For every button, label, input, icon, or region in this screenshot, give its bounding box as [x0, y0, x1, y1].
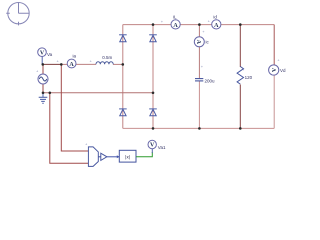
capacitor branch wire lower: [198, 81, 200, 128]
bridge left leg: [122, 25, 124, 129]
voltmeter Va: [38, 48, 53, 65]
node tap2: [49, 92, 52, 95]
node source bottom: [42, 92, 45, 95]
node top rail 3: [239, 23, 242, 26]
abs block |x|: [119, 150, 136, 162]
svg-text:120: 120: [245, 75, 253, 80]
node top rail 1: [152, 23, 155, 26]
gain triangle: [98, 153, 107, 160]
resistor branch wire lower: [239, 85, 241, 129]
diode D3: [119, 109, 127, 116]
svg-text:V: V: [272, 67, 278, 72]
svg-text:200u: 200u: [205, 79, 216, 84]
wire gain to abs box: [107, 156, 119, 158]
capacitor branch wire upper: [198, 25, 200, 79]
capacitor 200u: [195, 64, 215, 84]
wire inductor to node C: [113, 63, 123, 65]
svg-text:+: +: [85, 142, 88, 147]
node bottom rail 2: [198, 127, 201, 130]
voltmeter Va1: [148, 140, 166, 153]
tap wire from return down to sensor input 2: [50, 93, 89, 164]
top rail: [123, 24, 274, 26]
node bottom rail 3: [239, 127, 242, 130]
node top rail 2: [198, 23, 201, 26]
resistor 120: [237, 67, 253, 85]
ground: [39, 93, 48, 104]
svg-text:A: A: [173, 23, 178, 29]
svg-text:+: +: [90, 59, 93, 64]
green wire abs to Va1: [136, 152, 152, 157]
tap wire from node B down to sensor input 1: [61, 64, 88, 151]
svg-text:+: +: [161, 19, 164, 24]
svg-text:+: +: [208, 19, 211, 24]
inductor 0.5m: [90, 55, 114, 64]
svg-text:Vd: Vd: [280, 68, 286, 73]
svg-text:+: +: [57, 59, 60, 64]
svg-text:V: V: [150, 143, 155, 149]
node return-bridge: [152, 92, 155, 95]
ammeter iL: [161, 15, 180, 29]
svg-text:id: id: [213, 15, 217, 20]
voltmeter Vd (vertical): [269, 58, 286, 76]
bridge right leg: [152, 25, 154, 129]
svg-text:A: A: [195, 40, 201, 45]
ammeter id: [208, 15, 221, 29]
wire nodeA-nodeB: [43, 63, 62, 65]
svg-text:A: A: [214, 23, 219, 29]
svg-text:ia: ia: [73, 54, 77, 59]
source upper stem: [42, 64, 44, 74]
ammeter ic (vertical): [194, 29, 209, 47]
svg-text:+: +: [202, 29, 205, 34]
svg-text:A: A: [69, 62, 74, 68]
diode D1: [119, 35, 127, 42]
svg-text:|x|: |x|: [125, 155, 130, 160]
resistor branch wire upper: [239, 25, 241, 67]
svg-text:V: V: [40, 50, 45, 56]
node C: [122, 63, 125, 66]
svg-text:iL: iL: [173, 15, 177, 20]
right leg lower (Vd to rail): [273, 75, 275, 128]
bottom rail: [123, 127, 274, 129]
node A: [42, 63, 45, 66]
wire ammeter ia to inductor: [76, 63, 97, 65]
ammeter ia: [57, 54, 77, 68]
AC source Vs: [36, 69, 48, 85]
node B: [60, 63, 63, 66]
svg-text:+: +: [36, 69, 39, 74]
svg-text:+: +: [201, 64, 204, 69]
clock icon: [6, 3, 29, 26]
svg-text:+: +: [277, 58, 280, 63]
svg-text:0.5m: 0.5m: [102, 55, 112, 60]
diode D2: [149, 35, 157, 42]
right leg upper (to Vd): [273, 25, 275, 65]
source lower stem: [42, 84, 44, 93]
svg-text:+: +: [242, 67, 245, 72]
svg-text:ic: ic: [206, 40, 210, 45]
node bottom rail 1: [152, 127, 155, 130]
wire nodeB to ammeter ia: [61, 63, 68, 65]
diode D4: [149, 109, 157, 116]
svg-text:Va: Va: [47, 52, 53, 57]
svg-text:Va1: Va1: [158, 145, 166, 150]
voltage sensor: [85, 142, 98, 167]
return wire: [43, 92, 153, 94]
